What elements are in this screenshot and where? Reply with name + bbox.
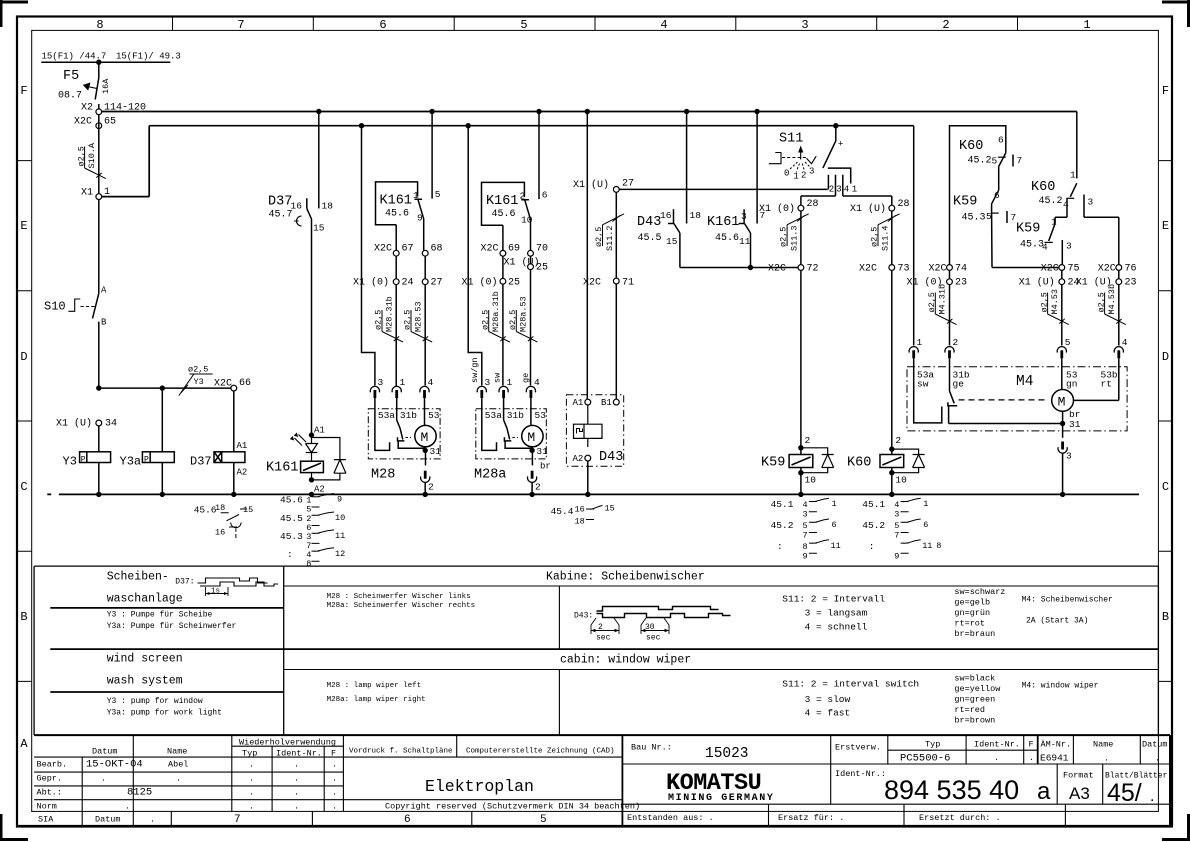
wire D43 A1 drop: [586, 112, 588, 400]
node bus K60: [889, 492, 894, 497]
connector M4 1: [909, 347, 918, 359]
svg-text:Elektroplan: Elektroplan: [425, 777, 534, 796]
label A1 K161: [314, 426, 325, 436]
crop mark top-left: [0, 0, 28, 27]
svg-text:Kabine: Scheibenwischer: Kabine: Scheibenwischer: [546, 571, 705, 584]
svg-text:wash system: wash system: [107, 675, 183, 688]
ident row verticals: [1057, 764, 1103, 804]
svg-text:A1: A1: [314, 426, 325, 436]
svg-text:.: .: [249, 760, 254, 770]
crossref table K161 row2: [280, 512, 345, 533]
bottom row line right: [622, 803, 1170, 805]
wire 28b down X2C73: [891, 211, 893, 265]
diode K60: [892, 449, 925, 473]
label 15(F1)/44.7: [42, 52, 107, 62]
svg-text:2A (Start 3A): 2A (Start 3A): [1026, 617, 1088, 626]
svg-text:8125: 8125: [127, 787, 152, 799]
svg-text:1: 1: [852, 185, 857, 195]
svg-text:12: 12: [335, 549, 345, 559]
svg-text:71: 71: [622, 278, 634, 289]
label X2C 67: [374, 244, 414, 255]
svg-text:18: 18: [575, 517, 585, 527]
svg-text:4: 4: [803, 500, 808, 510]
erstverw cells: [835, 740, 1168, 764]
wire X1U34 to Y3: [98, 426, 100, 495]
svg-text:M28a.53: M28a.53: [519, 296, 529, 332]
svg-text:K161: K161: [486, 194, 518, 209]
label M28 terminals: [378, 410, 440, 421]
svg-text:Abt.:: Abt.:: [37, 788, 63, 798]
cable marker M28a.53: [508, 296, 538, 342]
svg-text:3 = slow: 3 = slow: [805, 694, 851, 705]
svg-text:M28a: Scheinwerfer Wischer rec: M28a: Scheinwerfer Wischer rechts: [327, 602, 476, 610]
wire 75 down M4: [1061, 285, 1063, 346]
svg-text:D: D: [20, 350, 27, 364]
svg-text:Scheiben-: Scheiben-: [107, 571, 169, 584]
svg-text:10: 10: [521, 215, 533, 226]
contact K60-1: [999, 153, 1006, 190]
svg-text:X2: X2: [81, 103, 93, 114]
svg-text:5: 5: [435, 189, 441, 200]
svg-text:9: 9: [337, 495, 342, 505]
svg-text:.: .: [332, 788, 337, 798]
crossref K59 row2: [771, 519, 837, 541]
svg-text:F: F: [331, 749, 336, 759]
svg-text:M4: Scheibenwischer: M4: Scheibenwischer: [1022, 596, 1113, 605]
svg-text:ge: ge: [953, 379, 965, 390]
legend d37 waveform: [198, 578, 279, 586]
terminal 68: [422, 250, 428, 256]
label K161-1: [380, 190, 424, 224]
svg-text:C: C: [1162, 480, 1169, 494]
wire 74 down M4: [949, 285, 951, 346]
svg-text:45.3: 45.3: [280, 531, 303, 542]
svg-text:Name: Name: [167, 747, 187, 757]
wire M28a 53 to motor: [530, 398, 532, 425]
label D37 coil: [190, 455, 212, 469]
svg-text:PC5500-6: PC5500-6: [900, 753, 950, 765]
stub 7 K59-1: [1006, 211, 1008, 223]
svg-text:Datum: Datum: [92, 747, 118, 757]
wire 27 down to X2C71: [615, 192, 617, 278]
svg-text:114-120: 114-120: [104, 103, 146, 114]
label X1(U) 34: [56, 418, 117, 430]
terminal A1 D43: [585, 399, 591, 405]
title block heavy divider bau: [621, 735, 623, 826]
svg-text:3: 3: [803, 510, 808, 520]
svg-text:10: 10: [895, 475, 907, 486]
svg-text:7: 7: [803, 531, 808, 541]
svg-text:Y3 : pump for window: Y3 : pump for window: [107, 697, 203, 706]
svg-text:Y3: Y3: [63, 455, 77, 469]
svg-text:S11.4: S11.4: [880, 225, 890, 251]
crossref D43 45.4: [551, 504, 615, 527]
svg-text:S10: S10: [44, 300, 66, 314]
svg-text:rt=red: rt=red: [954, 705, 985, 715]
svg-text:8: 8: [306, 559, 311, 569]
svg-text:B: B: [20, 610, 27, 624]
wire 24 down M28: [395, 285, 397, 386]
svg-text:Abel: Abel: [168, 760, 188, 770]
wire M4 53 to motor: [1061, 358, 1063, 389]
erstverw verticals: [831, 735, 1141, 804]
solenoid Y3a: [142, 452, 174, 463]
svg-text:2: 2: [428, 482, 434, 493]
svg-text:.: .: [994, 753, 999, 763]
svg-text:5: 5: [803, 521, 808, 531]
svg-text:Gepr.: Gepr.: [37, 774, 63, 784]
label X1 1: [81, 187, 110, 199]
svg-text:Ident-Nr.:: Ident-Nr.:: [835, 769, 886, 779]
svg-text:6: 6: [832, 520, 837, 530]
label K59-2: [1016, 217, 1057, 253]
svg-text:.: .: [101, 774, 106, 784]
svg-text:.: .: [294, 760, 299, 770]
wire 68 to 27: [424, 256, 426, 279]
label S11: [779, 132, 843, 150]
svg-text:72: 72: [807, 264, 819, 275]
wire F5 to X1: [98, 115, 100, 194]
svg-text:9: 9: [417, 213, 423, 224]
svg-text:16: 16: [291, 201, 303, 212]
svg-text:M28a.31b: M28a.31b: [491, 291, 501, 332]
motor M4: [1052, 390, 1074, 412]
node S10 junction: [96, 385, 101, 390]
svg-text:5: 5: [894, 521, 899, 531]
wind screen cell underline: [50, 691, 283, 693]
svg-text:M: M: [1058, 395, 1066, 410]
svg-text:5: 5: [992, 156, 998, 167]
cable marker M4.53b: [1096, 284, 1126, 325]
mid separator line: [50, 648, 1158, 650]
svg-text:74: 74: [955, 264, 967, 275]
svg-text:66: 66: [239, 378, 251, 389]
svg-text:M4: window wiper: M4: window wiper: [1022, 682, 1099, 691]
svg-text:1: 1: [507, 377, 513, 388]
svg-text:SIA: SIA: [38, 815, 54, 825]
svg-text:25: 25: [536, 263, 548, 274]
wire M4 53a inside: [914, 358, 942, 423]
svg-text:.: .: [1029, 753, 1034, 763]
motor M28a: [522, 425, 543, 446]
svg-text:ø2,5: ø2,5: [188, 365, 208, 375]
switch S11: [833, 123, 838, 128]
contact D37 16/15: [307, 198, 312, 435]
stub 7 K60-1: [1012, 155, 1014, 167]
svg-text:br: br: [540, 462, 551, 472]
svg-text:28: 28: [898, 199, 910, 210]
svg-text:sw=black: sw=black: [954, 674, 995, 684]
svg-text:S10.A: S10.A: [87, 142, 97, 168]
svg-text:15: 15: [666, 236, 678, 247]
label 16A rotated: [101, 78, 111, 94]
relay coil D37: [214, 452, 245, 463]
svg-text:ge=yellow: ge=yellow: [954, 684, 1001, 694]
svg-text:.: .: [1155, 754, 1160, 764]
svg-text:F: F: [1029, 740, 1034, 750]
wire X1 to S10: [98, 200, 100, 294]
row ticks left band: [17, 161, 32, 682]
svg-text:11: 11: [335, 531, 345, 541]
svg-text:27: 27: [622, 179, 634, 190]
timer element D43: [574, 405, 603, 447]
svg-text::: :: [777, 541, 783, 552]
svg-text:894 535 40: 894 535 40: [884, 775, 1019, 805]
kabine header underline: [284, 585, 1159, 587]
contact K59-2: [1049, 224, 1055, 242]
wire bus X2C 65: [102, 126, 914, 197]
svg-text:Name: Name: [1093, 740, 1113, 750]
svg-text:1: 1: [1083, 18, 1090, 32]
svg-text:45.2: 45.2: [862, 520, 885, 531]
label K161-3: [707, 210, 765, 247]
cabin header underline: [284, 669, 1159, 671]
connector M28a 3: [477, 386, 486, 398]
wire M28 53a feed: [362, 126, 375, 386]
label Y3a P: [120, 455, 150, 469]
wire bus X2 114-120: [99, 111, 1077, 113]
legend vertical main divider: [283, 566, 285, 735]
svg-text:br=brown: br=brown: [954, 716, 995, 726]
TITLE BLOCK: [17, 735, 1172, 826]
svg-text:M4: M4: [1016, 374, 1033, 390]
cable marker S11.4: [870, 214, 900, 251]
svg-text:7: 7: [1017, 155, 1023, 166]
svg-text:X1: X1: [81, 188, 93, 199]
node bus K59: [798, 492, 803, 497]
label M4 terminals: [917, 370, 1118, 390]
title block verticals left part: [82, 735, 343, 811]
svg-text:ø2,5: ø2,5: [1096, 292, 1106, 312]
title block rows left part: [34, 757, 343, 800]
motor box M4: [907, 367, 1127, 431]
terminal X2C 73: [889, 265, 895, 271]
svg-text:A: A: [101, 286, 107, 296]
svg-text:A1: A1: [573, 398, 584, 408]
svg-text:Norm: Norm: [37, 801, 57, 811]
svg-text:9: 9: [803, 552, 808, 562]
svg-text:53a: 53a: [378, 410, 395, 421]
svg-text:S11.2: S11.2: [605, 225, 615, 251]
svg-text:.: .: [249, 801, 254, 811]
node Y3a junction: [160, 385, 165, 390]
crossref K59 row1: [771, 498, 837, 519]
svg-text:10: 10: [335, 513, 345, 523]
svg-text:X2C: X2C: [74, 117, 92, 128]
svg-text:D: D: [1162, 350, 1169, 364]
svg-text:Y3a: Pumpe für Scheinwerfer: Y3a: Pumpe für Scheinwerfer: [107, 622, 237, 631]
svg-text:7: 7: [234, 814, 241, 826]
svg-text:4: 4: [1063, 199, 1069, 210]
svg-text:S11: 2 = Intervall: S11: 2 = Intervall: [782, 594, 885, 605]
wiederholverwendung subline: [232, 745, 344, 747]
row ticks right band: [1158, 161, 1172, 682]
svg-text:ø2,5: ø2,5: [508, 310, 518, 330]
label K161 coil: [266, 461, 298, 476]
switch S10: [93, 293, 99, 388]
wire 76 down M4: [1118, 285, 1120, 346]
terminal X1(0) 28: [798, 205, 804, 211]
svg-text:11: 11: [739, 236, 751, 247]
relay contact K161-2: [482, 182, 525, 225]
node X2 bus D43 contact: [684, 109, 689, 114]
svg-text:45.6: 45.6: [280, 495, 303, 506]
svg-text:16A: 16A: [101, 78, 111, 94]
wire Y3 distribution: [99, 387, 231, 389]
cable marker M28.53: [403, 301, 433, 342]
connector M28 3: [370, 386, 379, 398]
svg-text:D37: D37: [190, 455, 212, 469]
terminal X2C 74: [947, 265, 953, 271]
terminal X2C 66: [231, 385, 237, 391]
svg-text:X1 (0): X1 (0): [353, 277, 389, 289]
terminal B1 D43: [613, 399, 619, 405]
bau nr row line: [622, 763, 1170, 765]
svg-text:cabin: window wiper: cabin: window wiper: [560, 654, 691, 667]
svg-text:ø2,5: ø2,5: [1039, 292, 1049, 312]
svg-text:sec: sec: [646, 634, 661, 643]
connector M4 3: [1058, 442, 1067, 454]
svg-text:K59: K59: [1016, 222, 1040, 237]
svg-text:A2: A2: [573, 454, 584, 464]
svg-text:8: 8: [936, 541, 941, 551]
wire Y3a branch: [161, 388, 163, 494]
svg-text:Bearb.: Bearb.: [37, 760, 68, 770]
svg-text:2: 2: [598, 623, 603, 632]
svg-text:7: 7: [894, 531, 899, 541]
svg-text:8: 8: [803, 542, 808, 552]
terminal X2C 69: [500, 250, 506, 256]
label A1 A2 D37: [237, 441, 248, 478]
svg-text:4: 4: [428, 377, 434, 388]
connector M28 2: [421, 471, 430, 483]
svg-text:sw/gn: sw/gn: [470, 357, 480, 383]
wire M28a 53a inside: [482, 398, 497, 450]
svg-text:.: .: [332, 760, 337, 770]
node bus Y3: [96, 492, 101, 497]
solenoid Y3: [80, 452, 111, 463]
S10 handle: [68, 299, 80, 311]
svg-text:gn=grün: gn=grün: [954, 608, 990, 618]
timer D43 box: [566, 395, 623, 467]
svg-text:31: 31: [430, 446, 442, 457]
relay coil K59: [798, 445, 803, 450]
scheiben cell underline 1: [50, 607, 283, 609]
label D37 contact: [268, 195, 333, 234]
svg-text:1: 1: [413, 190, 419, 201]
svg-text:E: E: [1162, 219, 1169, 233]
svg-text:A3: A3: [1069, 784, 1090, 803]
svg-text:31b: 31b: [400, 410, 417, 421]
svg-text:B: B: [101, 318, 107, 328]
cable marker 2,5 S10.A: [76, 142, 106, 179]
node bus K161: [309, 492, 314, 497]
title block outline top: [34, 734, 1170, 736]
label X1(0) 24: [353, 277, 414, 289]
relay coil K161 with LED: [309, 432, 314, 437]
svg-text:45.1: 45.1: [771, 499, 794, 510]
svg-text:ge=gelb: ge=gelb: [954, 598, 990, 608]
node X2C bus M28a feed: [466, 123, 471, 128]
svg-text:Y3: Y3: [194, 377, 204, 387]
legend 2sec bracket: [591, 618, 619, 634]
connector M28a 1: [499, 386, 508, 398]
svg-text:9: 9: [894, 552, 899, 562]
svg-text:4 = schnell: 4 = schnell: [805, 622, 868, 633]
diode K161: [312, 438, 346, 480]
svg-text:4: 4: [1122, 337, 1128, 348]
svg-text:K60: K60: [959, 139, 983, 154]
svg-text:.: .: [1150, 788, 1154, 805]
cable marker S11.3: [779, 214, 809, 251]
svg-text:br=braun: br=braun: [954, 629, 995, 639]
svg-text:Erstverw.: Erstverw.: [835, 743, 881, 753]
motor M28: [415, 425, 436, 446]
svg-text:27: 27: [431, 278, 443, 289]
wire M4 31b inside: [950, 358, 955, 403]
svg-text:6: 6: [994, 190, 1000, 201]
terminal X1(0) 23: [949, 270, 951, 278]
svg-text:.: .: [125, 801, 130, 811]
svg-text:3 = langsam: 3 = langsam: [805, 608, 868, 619]
stub 3 K60-2: [1084, 195, 1119, 265]
svg-text:3: 3: [378, 377, 384, 388]
terminal X1 1: [96, 194, 102, 200]
svg-text:68: 68: [431, 244, 443, 255]
svg-text:23: 23: [1125, 278, 1137, 289]
svg-text:45.2: 45.2: [1039, 196, 1063, 207]
inner frame bottom band verticals: [82, 811, 472, 826]
cable marker 2,5 Y3: [179, 365, 213, 396]
svg-text:K60: K60: [1031, 180, 1055, 195]
svg-text:.: .: [1104, 754, 1109, 764]
wire X2C72 to K59 coil: [800, 270, 802, 447]
svg-text:Entstanden aus: .: Entstanden aus: .: [627, 813, 714, 823]
svg-text:rt=rot: rt=rot: [954, 619, 985, 629]
LED K161: [306, 435, 318, 461]
svg-text:2: 2: [801, 171, 806, 181]
wire 70 down: [530, 270, 532, 386]
svg-text:D37: D37: [268, 195, 292, 210]
wire X2C bridge 74 to K60 contact: [950, 126, 1006, 265]
svg-text:6: 6: [998, 135, 1004, 146]
D37 release arc: [294, 216, 302, 226]
svg-text:25: 25: [508, 278, 520, 289]
svg-text:1: 1: [793, 172, 798, 182]
wire A2 to bus: [587, 461, 589, 494]
fuse switch F5: [95, 62, 99, 109]
wire M28 53 to motor: [424, 398, 426, 425]
svg-text:Copyright reserved (Schutzverm: Copyright reserved (Schutzvermerk DIN 34…: [385, 802, 640, 812]
svg-text:.: .: [294, 801, 299, 811]
wire K59 to bus: [800, 473, 802, 495]
svg-text:ÄM-Nr.: ÄM-Nr.: [1041, 740, 1072, 750]
svg-text:X2C: X2C: [374, 244, 392, 255]
wire 15(F1) top line: [41, 61, 170, 63]
contact K161-3: [739, 209, 751, 267]
svg-text:gn=green: gn=green: [954, 695, 995, 705]
wire K161-1 box output: [395, 225, 397, 251]
svg-text:16: 16: [575, 505, 585, 515]
S11 finger 2: [827, 175, 829, 190]
svg-text:sec: sec: [596, 634, 611, 643]
svg-text:X2C: X2C: [214, 379, 232, 390]
svg-text:2: 2: [942, 18, 949, 32]
svg-text:15: 15: [243, 505, 253, 515]
node bus M28: [423, 492, 428, 497]
svg-text:E: E: [20, 219, 27, 233]
row letters left band: [20, 84, 28, 751]
